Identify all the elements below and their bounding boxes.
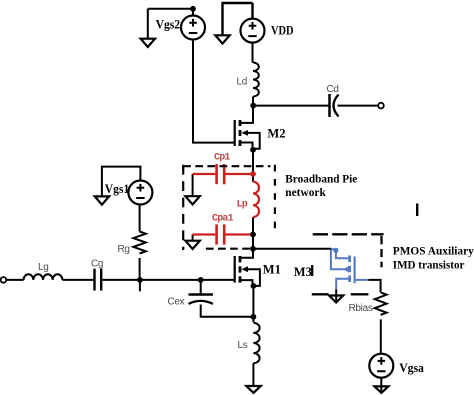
svg-text:Broadband Pie: Broadband Pie — [285, 172, 358, 186]
svg-text:M3: M3 — [294, 265, 312, 279]
svg-text:Ls: Ls — [238, 340, 248, 351]
svg-text:Vgs1: Vgs1 — [105, 182, 130, 196]
svg-text:Ld: Ld — [237, 77, 248, 88]
svg-text:M1: M1 — [263, 263, 281, 277]
svg-text:Vgsa: Vgsa — [399, 361, 424, 375]
svg-text:M2: M2 — [267, 126, 285, 140]
svg-text:Cp1: Cp1 — [214, 153, 230, 164]
svg-text:Rbias: Rbias — [349, 303, 373, 314]
svg-text:network: network — [285, 185, 326, 199]
svg-text:Vgs2: Vgs2 — [156, 17, 181, 31]
svg-text:Cpa1: Cpa1 — [212, 214, 234, 225]
svg-text:IMD transistor: IMD transistor — [393, 257, 465, 271]
svg-text:PMOS Auxiliary: PMOS Auxiliary — [393, 244, 474, 258]
svg-text:VDD: VDD — [271, 24, 294, 38]
svg-text:Lp: Lp — [237, 200, 248, 211]
svg-text:Lg: Lg — [38, 262, 49, 273]
svg-text:Cex: Cex — [168, 297, 185, 308]
svg-text:Rg: Rg — [118, 244, 130, 255]
svg-text:Cg: Cg — [91, 259, 103, 270]
svg-text:Cd: Cd — [327, 84, 339, 95]
